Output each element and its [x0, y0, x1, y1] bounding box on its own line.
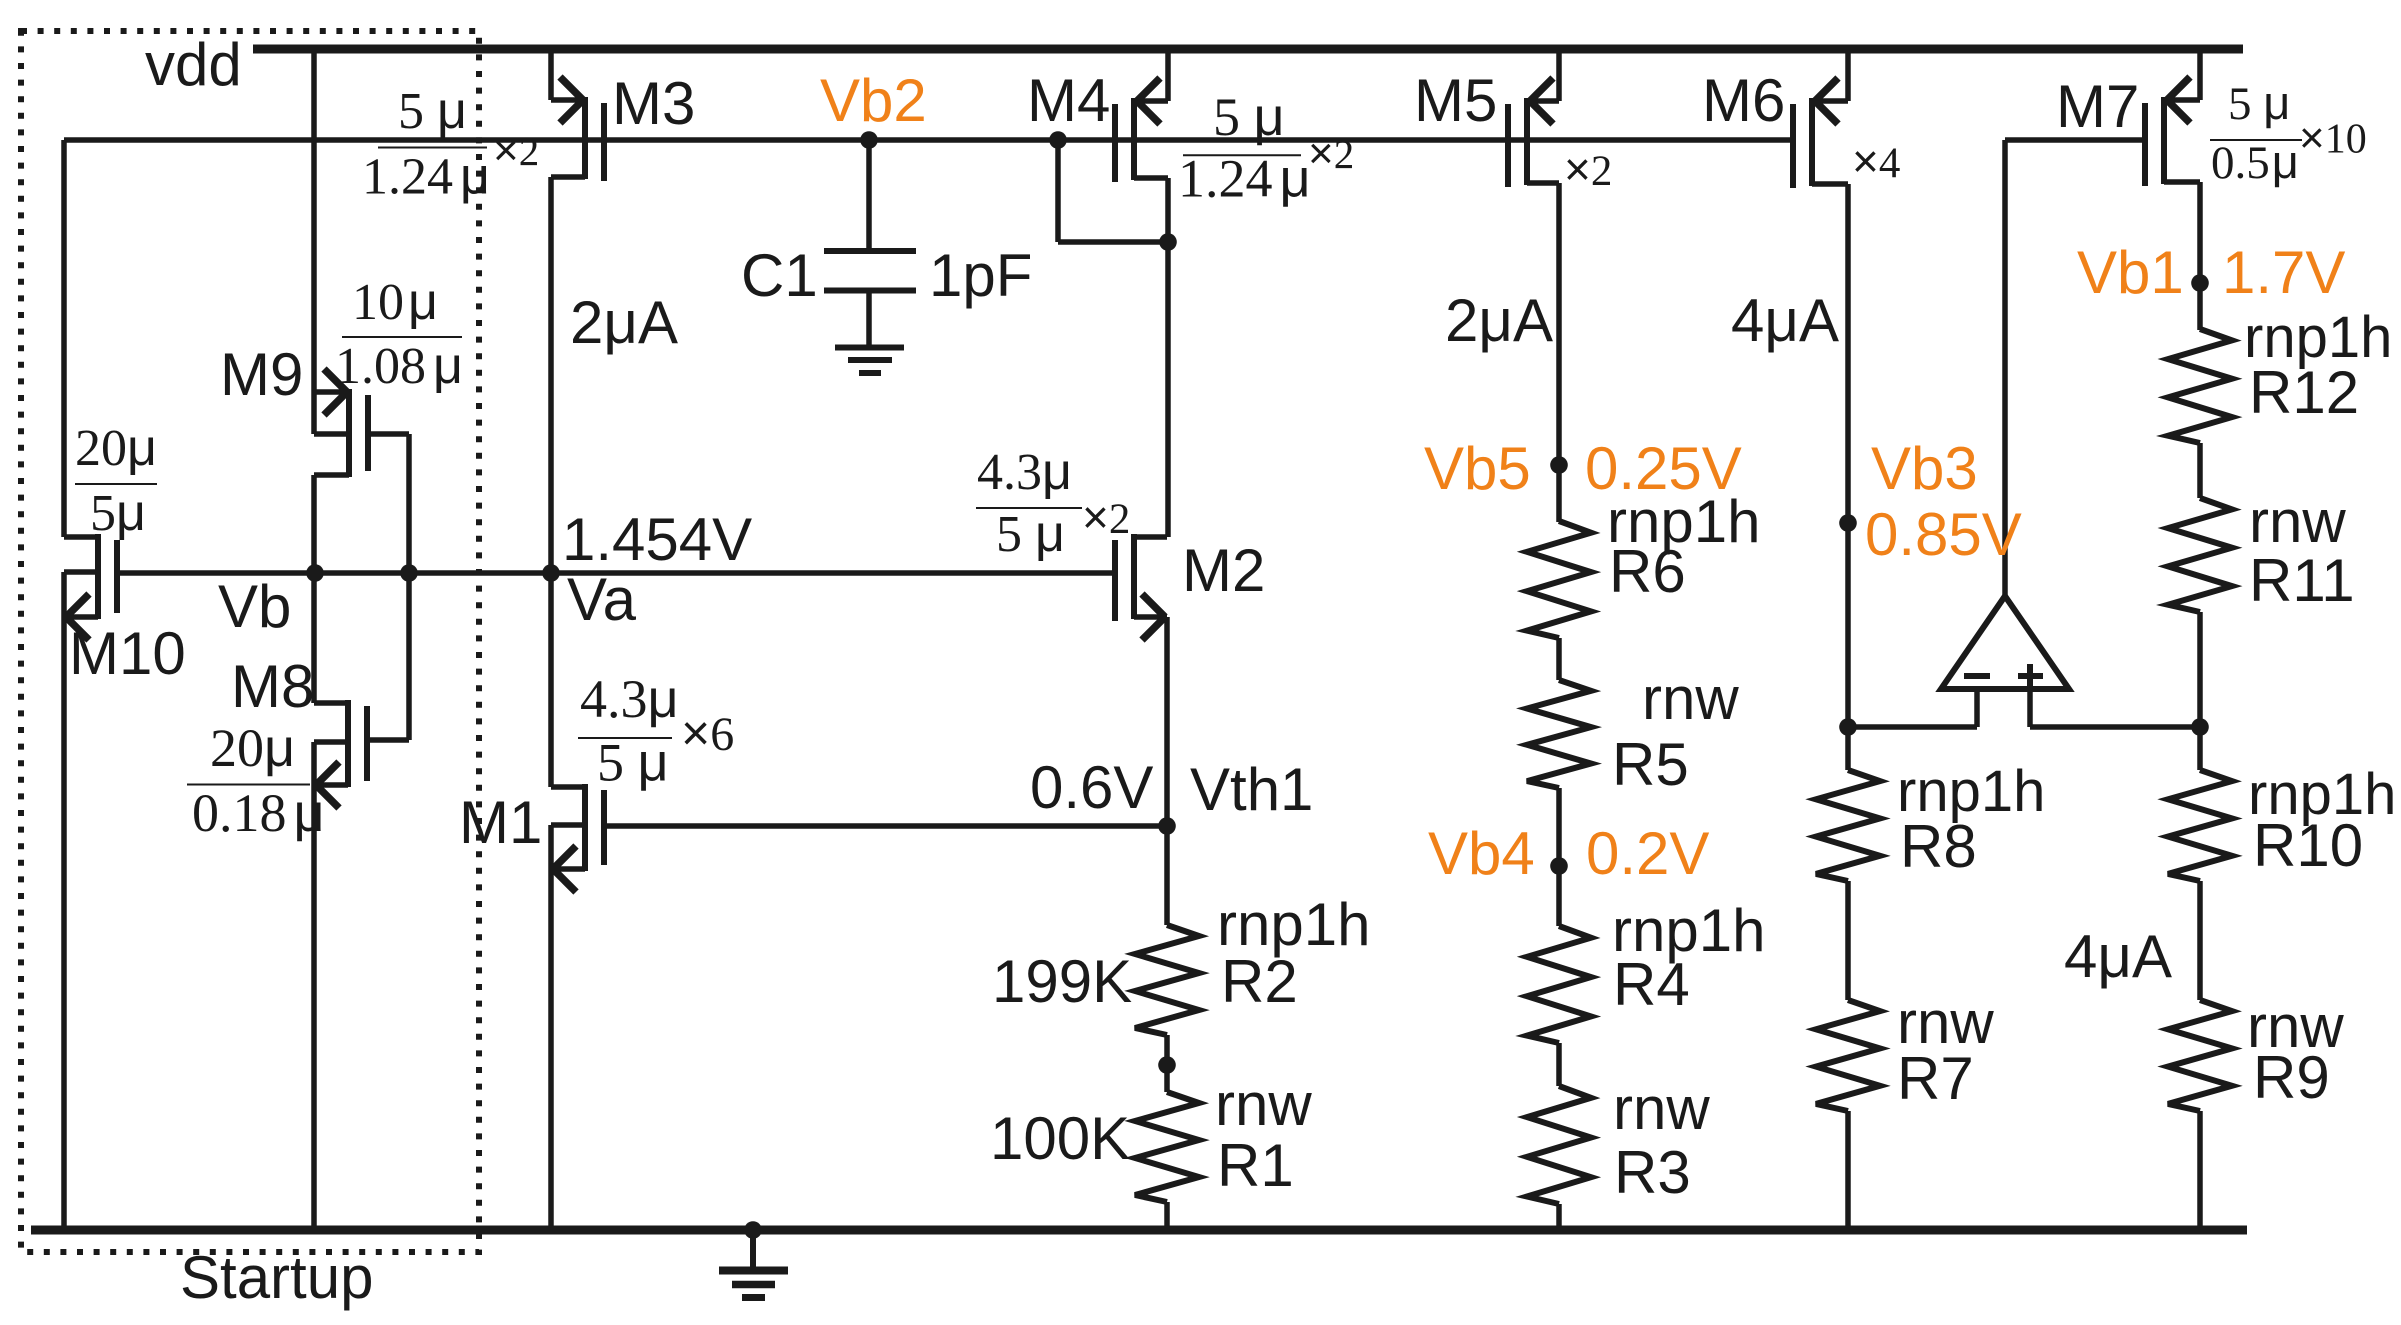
svg-text:Vb2: Vb2: [820, 67, 927, 134]
svg-text:R9: R9: [2253, 1044, 2330, 1111]
svg-text:×2: ×2: [1308, 129, 1354, 178]
svg-text:M8: M8: [231, 653, 314, 720]
svg-text:×2: ×2: [1564, 143, 1612, 195]
svg-text:×4: ×4: [1852, 135, 1900, 187]
svg-text:R2: R2: [1221, 948, 1298, 1015]
svg-text:R5: R5: [1612, 731, 1689, 798]
svg-text:4.3μ: 4.3μ: [977, 443, 1072, 501]
svg-text:R8: R8: [1900, 813, 1977, 880]
svg-text:100K: 100K: [990, 1105, 1130, 1172]
svg-text:4.3μ: 4.3μ: [580, 669, 679, 729]
svg-text:R1: R1: [1217, 1132, 1294, 1199]
svg-text:M6: M6: [1702, 67, 1785, 134]
svg-text:0.2V: 0.2V: [1586, 820, 1709, 887]
svg-text:R11: R11: [2249, 547, 2355, 614]
svg-text:0.6V: 0.6V: [1030, 754, 1153, 821]
svg-text:1.7V: 1.7V: [2222, 239, 2345, 306]
svg-text:M10: M10: [69, 620, 186, 687]
svg-text:×10: ×10: [2299, 114, 2367, 163]
svg-text:R6: R6: [1609, 538, 1686, 605]
svg-text:M1: M1: [459, 789, 542, 856]
svg-text:20μ: 20μ: [75, 419, 157, 477]
svg-text:Vth1: Vth1: [1190, 756, 1313, 823]
svg-text:1.24μ: 1.24μ: [362, 148, 490, 206]
svg-text:Vb5: Vb5: [1424, 435, 1531, 502]
svg-text:4μA: 4μA: [1731, 287, 1839, 354]
svg-text:0.18μ: 0.18μ: [192, 783, 325, 843]
svg-text:R12: R12: [2249, 359, 2359, 426]
svg-text:Startup: Startup: [180, 1244, 373, 1311]
svg-text:Vb4: Vb4: [1428, 820, 1535, 887]
svg-text:C1: C1: [741, 242, 818, 309]
svg-text:Vb1: Vb1: [2077, 239, 2184, 306]
svg-text:5 μ: 5 μ: [2228, 76, 2290, 130]
svg-text:1.08μ: 1.08μ: [335, 337, 463, 395]
svg-text:Vb3: Vb3: [1871, 435, 1978, 502]
svg-text:5 μ: 5 μ: [597, 733, 669, 793]
svg-text:Va: Va: [567, 566, 637, 633]
svg-text:×2: ×2: [493, 126, 539, 175]
svg-text:0.5μ: 0.5μ: [2211, 135, 2299, 189]
svg-text:20μ: 20μ: [210, 718, 295, 778]
svg-text:Vb: Vb: [218, 573, 291, 640]
svg-text:×6: ×6: [681, 705, 734, 761]
svg-text:0.85V: 0.85V: [1865, 501, 2022, 568]
svg-text:199K: 199K: [992, 948, 1132, 1015]
svg-text:M2: M2: [1182, 537, 1265, 604]
svg-text:5μ: 5μ: [90, 484, 146, 542]
svg-text:rnw: rnw: [2249, 488, 2346, 555]
svg-text:1.454V: 1.454V: [562, 506, 752, 573]
svg-text:R4: R4: [1613, 951, 1690, 1018]
svg-text:5 μ: 5 μ: [398, 82, 467, 140]
svg-text:rnw: rnw: [1642, 665, 1739, 732]
svg-text:R7: R7: [1897, 1045, 1974, 1112]
svg-text:rnw: rnw: [1215, 1071, 1312, 1138]
svg-text:1.24μ: 1.24μ: [1178, 149, 1311, 209]
svg-text:R10: R10: [2253, 812, 2363, 879]
svg-text:M4: M4: [1027, 67, 1110, 134]
svg-text:1pF: 1pF: [929, 242, 1032, 309]
svg-text:×2: ×2: [1082, 491, 1130, 543]
svg-text:M7: M7: [2056, 73, 2139, 140]
svg-text:2μA: 2μA: [1445, 287, 1553, 354]
svg-text:rnw: rnw: [1613, 1075, 1710, 1142]
svg-text:10μ: 10μ: [352, 273, 438, 331]
svg-text:4μA: 4μA: [2064, 923, 2172, 990]
svg-text:R3: R3: [1614, 1139, 1691, 1206]
svg-text:vdd: vdd: [145, 31, 242, 98]
svg-text:5 μ: 5 μ: [1213, 87, 1285, 147]
svg-text:M5: M5: [1414, 67, 1497, 134]
svg-text:5 μ: 5 μ: [996, 505, 1065, 563]
svg-text:M9: M9: [220, 341, 303, 408]
svg-text:M3: M3: [612, 70, 695, 137]
svg-text:2μA: 2μA: [570, 289, 678, 356]
